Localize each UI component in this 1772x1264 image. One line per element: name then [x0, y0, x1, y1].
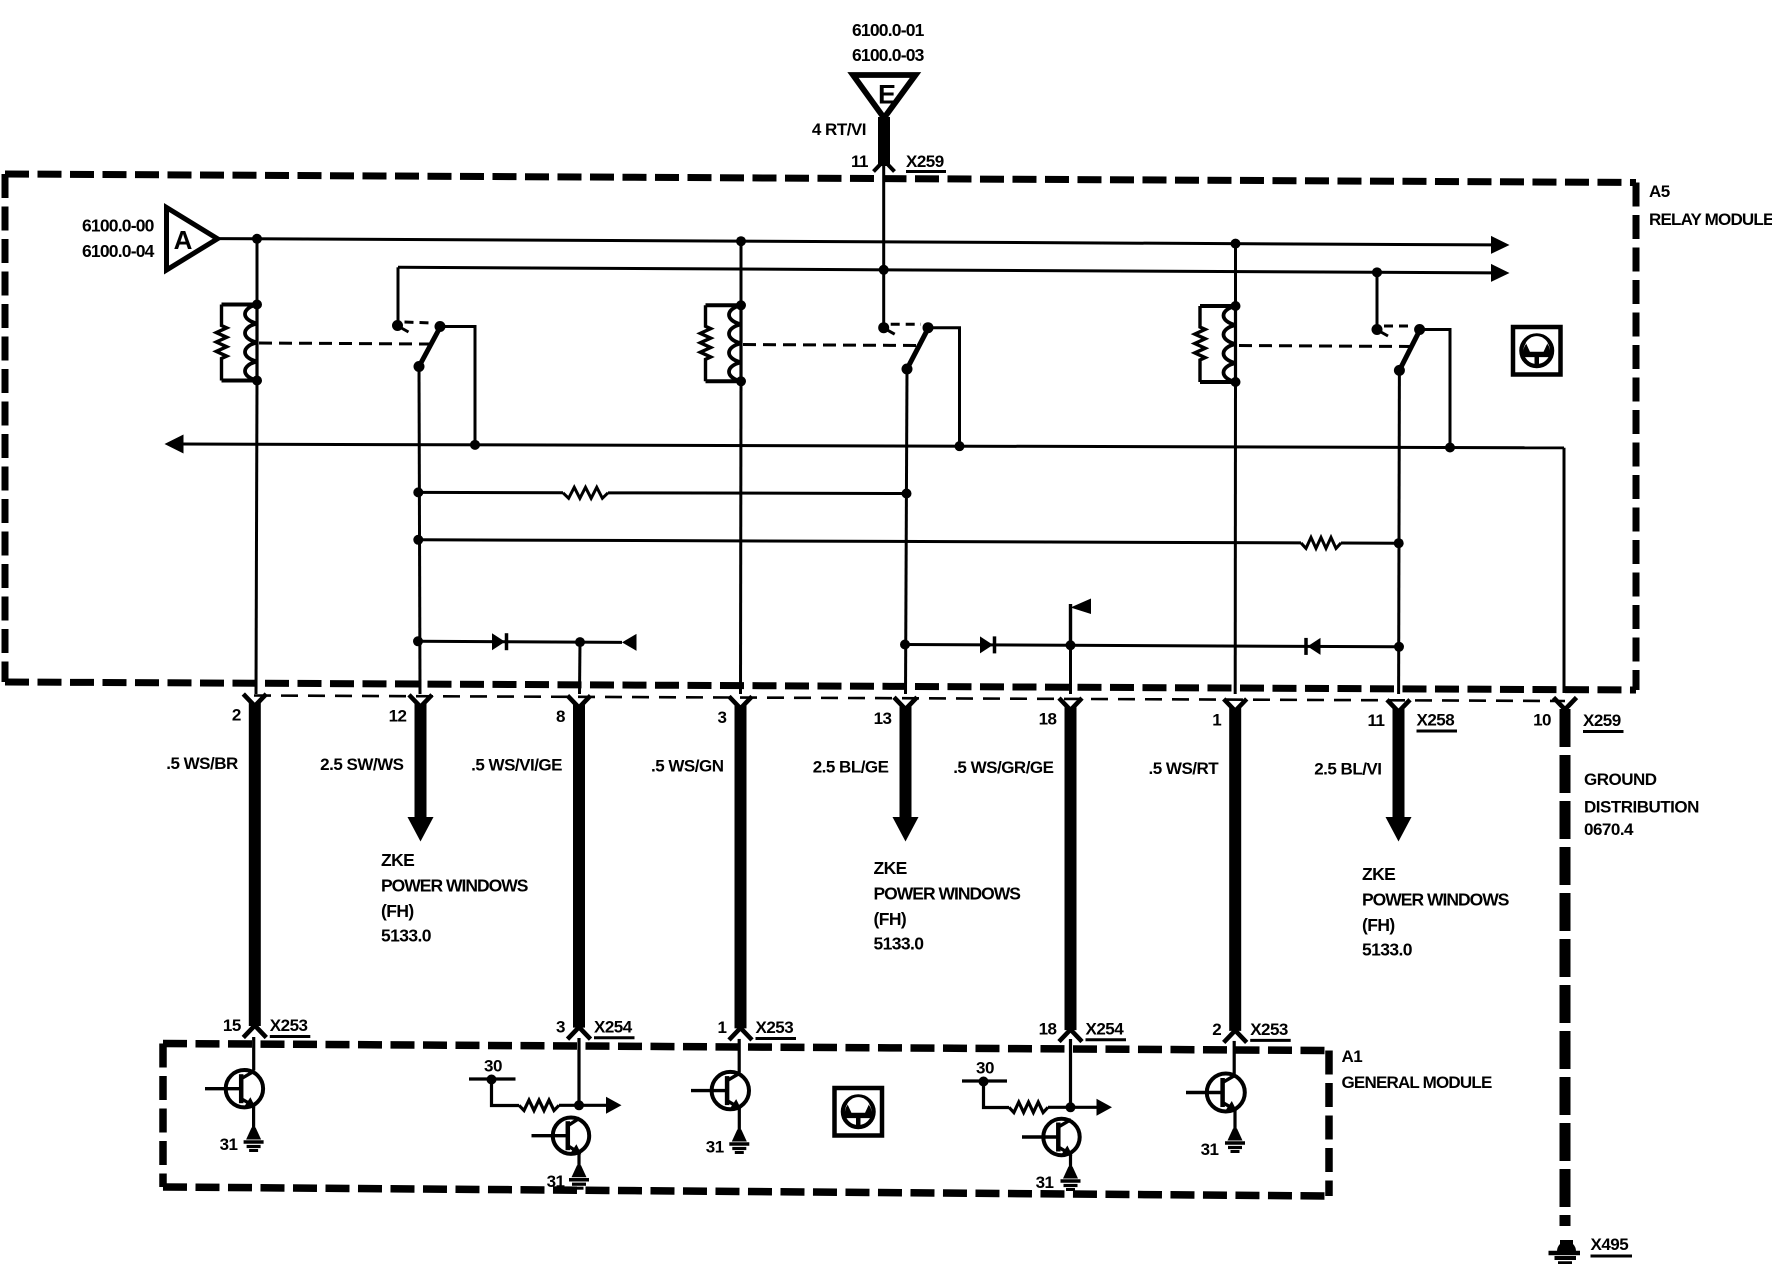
- junction diode row right / pin18 column: [1066, 640, 1076, 650]
- steering wheel icon (A1 module): [835, 1088, 883, 1136]
- module A5 boundary top (dashed): [5, 174, 1636, 183]
- power source triangle E: [853, 75, 916, 118]
- svg-text:(FH): (FH): [381, 901, 414, 921]
- svg-text:5133.0: 5133.0: [1362, 940, 1413, 960]
- mechanical link K3-S3 (dashed): [1239, 346, 1410, 347]
- junction line1 / pin2 column: [252, 234, 262, 244]
- switch S3 left contact: [1372, 324, 1383, 335]
- terminal 30 stub line (T2): [469, 1077, 516, 1080]
- connector feather pin 13: [894, 697, 917, 709]
- relay coil K2 (resistor+inductor): [700, 305, 741, 381]
- svg-text:POWER WINDOWS: POWER WINDOWS: [1362, 890, 1509, 910]
- svg-text:1: 1: [718, 1018, 727, 1037]
- connector feather pin 3: [729, 696, 752, 708]
- svg-text:8: 8: [556, 707, 565, 726]
- arrowhead left at end of left diode row: [622, 634, 637, 651]
- thick dashed ground wire to X495: [1560, 709, 1571, 1226]
- wire 4 RT/VI thick stem from E: [878, 117, 890, 166]
- connector feather (bottom row): [243, 1026, 266, 1038]
- junction coil K2 bottom: [736, 376, 746, 386]
- svg-text:30: 30: [976, 1059, 994, 1078]
- svg-text:1: 1: [1212, 710, 1221, 729]
- ground 31 (T4): [1063, 1167, 1078, 1179]
- svg-text:6100.0-03: 6100.0-03: [852, 45, 925, 65]
- svg-text:6100.0-01: 6100.0-01: [852, 20, 925, 40]
- svg-text:.5 WS/GN: .5 WS/GN: [651, 756, 724, 775]
- svg-text:.5 WS/VI/GE: .5 WS/VI/GE: [471, 756, 562, 775]
- svg-text:11: 11: [851, 152, 868, 171]
- wire pin12 column (S1 pivot down to pin 12): [419, 367, 420, 695]
- svg-text:.5 WS/GR/GE: .5 WS/GR/GE: [953, 758, 1053, 777]
- svg-text:11: 11: [1368, 711, 1385, 730]
- bus line 2: [398, 267, 1493, 273]
- arrowhead right (T2): [606, 1097, 622, 1114]
- junction resistor line / column (T4): [1066, 1102, 1076, 1112]
- connector feather pin 8: [568, 696, 591, 708]
- wire pin8 column into A1: [577, 1038, 580, 1105]
- switch S2 right contact: [923, 322, 934, 333]
- svg-text:6100.0-04: 6100.0-04: [82, 241, 155, 261]
- connector feather pin 18: [1059, 698, 1082, 710]
- diode row right (pin13 to pin11): [905, 645, 1399, 647]
- svg-text:.5 WS/BR: .5 WS/BR: [166, 754, 238, 773]
- wire pin1 column (line1 to coil K3 to pin 1): [1234, 244, 1237, 306]
- wire T5 emitter to ground: [1233, 1109, 1236, 1129]
- wire line2 junction down to S3 left contact: [1376, 272, 1379, 329]
- connector feather (bottom row): [1224, 1030, 1247, 1042]
- module A1 boundary right (dashed): [1325, 1051, 1333, 1197]
- svg-text:.5 WS/RT: .5 WS/RT: [1149, 759, 1220, 778]
- connector feather pin 11: [1387, 700, 1410, 712]
- transistor T4: [1022, 1119, 1080, 1156]
- wire T1 emitter to ground: [252, 1105, 255, 1128]
- svg-text:X254: X254: [594, 1017, 633, 1036]
- junction row1 / pin12 column: [413, 487, 423, 497]
- wire L from 30 to resistor (T2): [492, 1079, 520, 1106]
- resistor (T4): [1009, 1102, 1048, 1112]
- arrow line (left-pointing arrow at x=165): [180, 444, 1564, 448]
- arrowhead right (T4): [1097, 1099, 1113, 1116]
- thick wire column x=740.5: [735, 705, 747, 1028]
- wire emitter to ground (T2): [577, 1152, 580, 1166]
- svg-text:(FH): (FH): [1362, 915, 1395, 935]
- switch S1 right contact: [435, 321, 446, 332]
- wire S3 output right then down to arrow line: [1421, 330, 1450, 448]
- junction coil K3 top: [1231, 301, 1241, 311]
- svg-text:18: 18: [1039, 1019, 1057, 1038]
- module A5 boundary left (dashed): [2, 174, 9, 682]
- bus line 1 from triangle A: [218, 239, 1493, 245]
- svg-text:18: 18: [1039, 710, 1057, 729]
- transistor T3: [691, 1072, 749, 1109]
- module A1 boundary top (dashed): [163, 1044, 1329, 1051]
- thick wire column x=254.8: [249, 703, 261, 1026]
- wire pin3 column (line1 to coil K2 to pin 3): [740, 241, 743, 305]
- wire E column down to switch S2 left contact: [882, 164, 885, 328]
- mechanical link K1-S1 (dashed): [259, 343, 429, 344]
- relay coil K1 (resistor+inductor): [216, 305, 257, 381]
- diode row left (pin12 to pin8): [418, 641, 622, 642]
- svg-text:31: 31: [706, 1138, 724, 1157]
- diode D1: [492, 633, 505, 650]
- wire into A1 module x=254.5: [252, 1037, 255, 1070]
- wire pin18 column (diode row down to pin 18): [1069, 645, 1072, 694]
- switch S1 pivot: [414, 361, 425, 372]
- diode D3 (reversed): [1304, 638, 1308, 655]
- relay contact switch S1: [401, 322, 441, 367]
- switch S3 right contact: [1414, 324, 1425, 335]
- wire S1 output right then down to arrow line: [441, 327, 475, 445]
- svg-text:0670.4: 0670.4: [1584, 820, 1634, 839]
- junction diode row right / pin11 column: [1394, 642, 1404, 652]
- wire into A1 module x=740: [738, 1039, 741, 1073]
- wire into A1 module x=1235: [1233, 1041, 1236, 1075]
- relay coil K3 (resistor+inductor): [1195, 306, 1236, 382]
- module A1 boundary bottom (dashed): [163, 1187, 1329, 1196]
- switch S3 pivot: [1394, 365, 1405, 376]
- svg-text:RELAY MODULE: RELAY MODULE: [1649, 210, 1772, 229]
- junction 30 stub (T2): [487, 1075, 497, 1085]
- resistor (T2): [519, 1100, 559, 1110]
- wire resistor to arrow (T4): [1048, 1106, 1099, 1109]
- wire pin13 column (S2 pivot down to pin 13): [906, 369, 908, 694]
- svg-text:31: 31: [547, 1172, 565, 1191]
- svg-text:X253: X253: [1250, 1020, 1288, 1039]
- svg-text:13: 13: [874, 709, 892, 728]
- svg-text:30: 30: [484, 1057, 502, 1076]
- connector strip thin dashed line: [254, 696, 1565, 702]
- junction line2 / switch S3 left contact column: [1372, 267, 1382, 277]
- wire pin8 column (diode row down to pin 8): [578, 642, 582, 694]
- ground 31 (T1): [246, 1128, 261, 1140]
- connector feather pin 10 X259: [1554, 698, 1577, 710]
- junction arrow line / switch S3 output: [1445, 442, 1455, 452]
- connector feather (bottom row): [1059, 1030, 1082, 1042]
- wire T3 emitter to ground: [738, 1107, 741, 1130]
- svg-text:X253: X253: [756, 1018, 794, 1037]
- arrowhead ZKE: [1386, 817, 1412, 842]
- junction coil K1 top: [252, 300, 262, 310]
- svg-text:3: 3: [718, 708, 727, 727]
- wire pin2 column (line1 to coil K1 to pin 2): [256, 239, 259, 305]
- wire S2 output right then down to arrow line: [929, 328, 960, 446]
- ground X495: [1557, 1242, 1576, 1252]
- wire emitter to ground (T4): [1069, 1153, 1072, 1167]
- svg-text:(FH): (FH): [874, 909, 907, 929]
- thick wire with arrow x=905.5: [900, 706, 912, 818]
- svg-text:X259: X259: [1583, 711, 1621, 730]
- svg-text:X253: X253: [270, 1016, 308, 1035]
- svg-text:2.5 BL/VI: 2.5 BL/VI: [1314, 760, 1381, 779]
- svg-text:X259: X259: [906, 152, 944, 171]
- svg-text:2.5 SW/WS: 2.5 SW/WS: [320, 755, 404, 774]
- resistor row 1 (pin12 to pin13 columns): [418, 491, 563, 494]
- svg-text:15: 15: [223, 1016, 241, 1035]
- thick wire column x=579: [573, 705, 585, 1028]
- mechanical link K2-S2 (dashed): [743, 345, 917, 346]
- power source triangle A: [167, 208, 218, 271]
- ground 31 (T3): [732, 1130, 747, 1142]
- thick wire with arrow x=1398.5: [1393, 709, 1405, 818]
- svg-text:2: 2: [232, 706, 241, 725]
- ground 31 (T2): [572, 1165, 587, 1177]
- svg-text:ZKE: ZKE: [874, 858, 907, 878]
- switch S2 left contact: [878, 322, 889, 333]
- junction diode row / pin12 column: [413, 636, 423, 646]
- svg-text:DISTRIBUTION: DISTRIBUTION: [1584, 798, 1699, 817]
- switch S2 pivot: [902, 364, 913, 375]
- svg-text:5133.0: 5133.0: [874, 934, 925, 954]
- junction row2 / pin11 column: [1394, 538, 1404, 548]
- svg-text:3: 3: [556, 1017, 565, 1036]
- wire line2 corner down to S1 left contact: [397, 267, 400, 325]
- connector feather pin 12: [409, 695, 432, 707]
- svg-text:POWER WINDOWS: POWER WINDOWS: [874, 884, 1021, 904]
- arrowhead ZKE: [893, 817, 919, 842]
- svg-text:GENERAL MODULE: GENERAL MODULE: [1342, 1073, 1492, 1092]
- transistor T5: [1186, 1074, 1245, 1112]
- svg-text:5133.0: 5133.0: [381, 926, 432, 946]
- junction line2 / E column: [879, 265, 889, 275]
- wire L from 30 to resistor (T4): [984, 1081, 1010, 1108]
- connector X259 pin 11 feathers: [874, 161, 895, 172]
- wire pin18 column into A1: [1069, 1039, 1072, 1106]
- junction coil K1 bottom: [252, 376, 262, 386]
- terminal 30 stub line (T4): [962, 1079, 1007, 1082]
- junction 30 stub (T4): [979, 1077, 989, 1087]
- svg-text:X495: X495: [1591, 1235, 1629, 1254]
- svg-text:10: 10: [1533, 711, 1551, 730]
- svg-text:X258: X258: [1417, 711, 1455, 730]
- svg-text:POWER WINDOWS: POWER WINDOWS: [381, 876, 528, 896]
- svg-text:A1: A1: [1342, 1047, 1363, 1066]
- diode D2: [980, 636, 993, 653]
- junction arrow line / switch S2 output: [955, 441, 965, 451]
- connector feather (bottom row): [568, 1027, 591, 1039]
- junction arrow line / switch S1 output: [470, 440, 480, 450]
- svg-text:E: E: [878, 80, 896, 110]
- junction diode row right / pin13 column: [900, 640, 910, 650]
- module A5 boundary bottom (dashed): [5, 682, 1636, 690]
- steering wheel icon (A5 module): [1513, 327, 1561, 375]
- connector feather pin 1: [1224, 699, 1247, 711]
- svg-text:31: 31: [1036, 1173, 1054, 1192]
- svg-text:X254: X254: [1086, 1019, 1125, 1038]
- svg-text:2: 2: [1212, 1020, 1221, 1039]
- relay contact switch S3: [1380, 326, 1420, 370]
- wire corner from arrow line down to pin 10 connector: [1563, 448, 1566, 693]
- svg-text:12: 12: [389, 706, 407, 725]
- junction row1 / pin13 column: [902, 489, 912, 499]
- wire resistor to arrow (T2): [559, 1104, 609, 1107]
- svg-text:31: 31: [220, 1135, 238, 1154]
- resistor row 2 (pin12 to pin11 columns): [418, 540, 1301, 543]
- module A5 boundary right (dashed): [1633, 183, 1640, 691]
- svg-text:A: A: [174, 225, 193, 255]
- svg-text:6100.0-00: 6100.0-00: [82, 216, 155, 236]
- svg-text:31: 31: [1201, 1140, 1219, 1159]
- thick wire with arrow x=420.5: [415, 704, 427, 818]
- junction line1 / pin1 column: [1231, 239, 1241, 249]
- svg-text:4 RT/VI: 4 RT/VI: [812, 120, 866, 139]
- svg-text:GROUND: GROUND: [1584, 770, 1657, 789]
- connector feather (bottom row): [729, 1028, 752, 1040]
- junction diode row / pin8 column: [575, 637, 585, 647]
- relay contact switch S2: [887, 324, 928, 369]
- junction resistor line / column (T2): [574, 1100, 584, 1110]
- transistor T1: [205, 1070, 263, 1107]
- wire pin11 column (S3 pivot down to pin 11): [1397, 370, 1401, 694]
- svg-text:ZKE: ZKE: [1362, 864, 1395, 884]
- junction coil K3 bottom: [1231, 377, 1241, 387]
- svg-text:2.5 BL/GE: 2.5 BL/GE: [813, 757, 889, 776]
- switch S1 left contact: [392, 320, 403, 331]
- ground 31 (T5): [1228, 1129, 1243, 1141]
- connector feather pin 2: [243, 694, 266, 706]
- thick wire column x=1070.5: [1065, 707, 1077, 1030]
- transistor T2: [532, 1118, 590, 1155]
- svg-text:A5: A5: [1649, 182, 1670, 201]
- svg-text:ZKE: ZKE: [381, 850, 414, 870]
- arrowhead ZKE: [408, 817, 434, 842]
- junction coil K2 top: [736, 300, 746, 310]
- thick wire column x=1235.2: [1229, 708, 1241, 1031]
- junction line1 / pin3 column: [736, 236, 746, 246]
- module A1 boundary left (dashed): [159, 1044, 167, 1188]
- junction row2 / pin12 column: [413, 535, 423, 545]
- flag symbol on pin18 column: [1069, 604, 1072, 645]
